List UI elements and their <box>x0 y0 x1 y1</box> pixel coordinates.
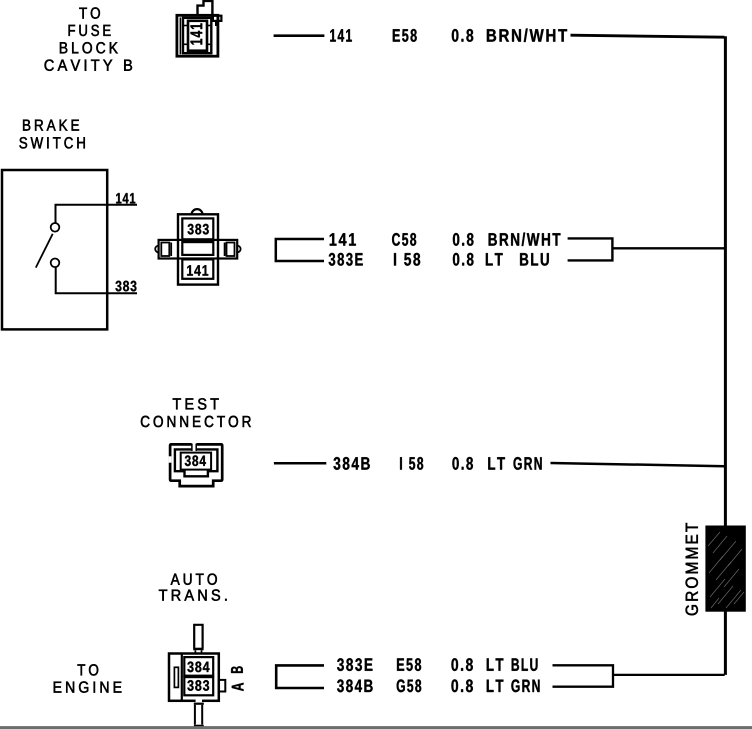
connector C3 top index notch <box>192 443 197 452</box>
connector C4 cavity number 383 <box>187 680 209 691</box>
wire 384B I58 : left stub <box>274 462 326 465</box>
wire 384B I58 : line to grommet bus <box>551 463 725 466</box>
label BRAKE SWITCH <box>19 120 84 149</box>
wire pair right bracket joining bus <box>553 665 725 686</box>
label AUTO TRANS. <box>159 574 227 601</box>
label: TO FUSE BLOCK CAVITY B <box>45 7 132 70</box>
brake switch blade (open) <box>36 234 53 268</box>
connector C2 cavity number 383 <box>188 224 209 235</box>
wire pair 383E E58 / 384B G58 : left bracket <box>276 665 324 688</box>
connector C4 body <box>169 654 225 701</box>
connector C1 cavity number 141 (rotated) <box>191 23 203 44</box>
wire pair right bracket to bus <box>568 238 725 260</box>
brake switch terminal label 383 <box>115 281 136 292</box>
connector C4 cavity number 384 <box>187 662 209 673</box>
wire 384B G58 0.8 LT GRN labels <box>337 679 539 692</box>
connector C2 (brake switch connector) <box>155 209 240 284</box>
bus wire to grommet (right vertical) <box>724 36 727 675</box>
connector C4 (auto trans / engine connector) top pin <box>194 625 202 648</box>
label TO ENGINE <box>54 664 122 693</box>
wire 384B I58 0.8 LT GRN labels <box>334 457 542 470</box>
brake switch pin 141 wire <box>56 205 138 223</box>
wire 141 E58 labels <box>330 29 567 42</box>
brake switch pin 383 wire <box>56 267 137 293</box>
wire 383E E58 0.8 LT BLU labels <box>337 658 537 671</box>
connector C3 left edge notch <box>169 456 172 462</box>
connector C1 to fuse block, cavity 141 <box>177 1 222 56</box>
wire 141 C58 0.8 BRN/WHT labels <box>330 233 561 246</box>
bottom border rule <box>0 726 752 729</box>
wire 141 E58 : line to grommet bus <box>571 35 725 37</box>
connector C4 pin letter B (rotated) <box>231 666 243 673</box>
brake switch lower contact <box>51 259 60 268</box>
wire 383E I58 0.8 LT BLU labels <box>329 253 549 266</box>
wire 141 E58 0.8 BRN/WHT : left stub <box>274 34 325 37</box>
connector C4 bottom pin <box>196 699 202 702</box>
label GROMMET (rotated) <box>686 523 698 615</box>
brake switch box <box>2 170 107 329</box>
brake switch terminal label 141 <box>116 193 135 203</box>
brake switch upper contact <box>51 223 60 232</box>
grommet (black body with hatch) <box>705 526 745 612</box>
connector C3 cavity number 384 <box>185 455 206 466</box>
connector C2 cavity number 141 <box>187 265 208 275</box>
connector C3 (test connector) <box>170 444 222 486</box>
wire pair 141 C58 / 383E I58 : left bracket <box>276 239 324 261</box>
label TEST CONNECTOR <box>141 398 251 427</box>
connector C4 pin letter A (rotated) <box>232 683 244 691</box>
